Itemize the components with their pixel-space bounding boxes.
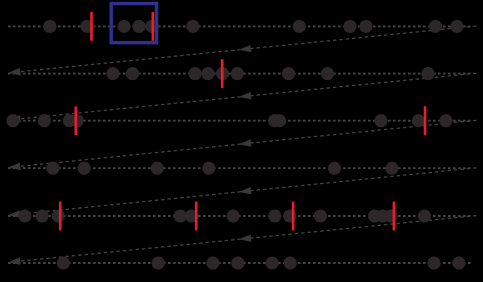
event circle row 1 #4	[132, 20, 145, 33]
mid arrowhead of return arrow 4	[239, 187, 252, 196]
row 3 dotted timeline	[8, 120, 473, 122]
event circle row 2 #1	[106, 67, 119, 80]
event circle row 2 #9	[421, 67, 434, 80]
event circle row 6 #4	[231, 256, 244, 269]
event circle row 2 #8	[321, 67, 334, 80]
event circle row 1 #1	[43, 20, 56, 33]
end arrowhead of return arrow 4	[8, 210, 21, 219]
row 6 dotted timeline	[8, 262, 473, 264]
red boundary tick row 5 #1	[59, 202, 62, 231]
event circle row 5 #1	[18, 209, 31, 222]
event circle row 1 #7	[293, 20, 306, 33]
mid arrowhead of return arrow 1	[239, 45, 252, 54]
event circle row 5 #3	[52, 209, 65, 222]
event circle row 2 #4	[201, 67, 214, 80]
event circle row 4 #1	[46, 162, 59, 175]
end arrowhead of return arrow 2	[8, 115, 21, 124]
event circle row 5 #4	[174, 209, 187, 222]
event circle row 6 #6	[284, 256, 297, 269]
red boundary tick row 3 #2	[424, 106, 427, 135]
mid arrowhead of return arrow 2	[239, 92, 252, 101]
event circle row 5 #9	[314, 209, 327, 222]
red boundary tick row 5 #4	[393, 202, 396, 231]
event circle row 1 #8	[343, 20, 356, 33]
event circle row 6 #5	[266, 256, 279, 269]
event circle row 3 #1	[6, 114, 19, 127]
red boundary tick row 3 #1	[75, 106, 78, 135]
event circle row 3 #3	[63, 114, 76, 127]
event circle row 6 #3	[206, 256, 219, 269]
event circle row 1 #6	[186, 20, 199, 33]
event circle row 6 #2	[152, 256, 165, 269]
event circle row 1 #10	[429, 20, 442, 33]
row 4 dotted timeline	[8, 167, 473, 169]
return arrow row 4 to row 5	[13, 168, 477, 215]
event circle row 4 #2	[78, 162, 91, 175]
event circle row 2 #3	[188, 67, 201, 80]
event circle row 5 #10	[368, 209, 381, 222]
event circle row 4 #4	[202, 162, 215, 175]
event circle row 2 #6	[231, 67, 244, 80]
event circle row 1 #3	[117, 20, 130, 33]
return arrow row 5 to row 6	[13, 216, 477, 262]
event circle row 3 #9	[439, 114, 452, 127]
red boundary tick row 2 #1	[221, 59, 224, 88]
event circle row 3 #4	[71, 114, 84, 127]
event circle row 1 #11	[450, 20, 463, 33]
event circle row 2 #2	[126, 67, 139, 80]
end arrowhead of return arrow 1	[8, 68, 21, 77]
event circle row 4 #5	[328, 162, 341, 175]
event circle row 5 #12	[384, 209, 397, 222]
event circle row 6 #7	[427, 256, 440, 269]
red boundary tick row 1 #2	[152, 12, 155, 41]
return arrow row 2 to row 3	[13, 73, 477, 119]
event circle row 3 #7	[374, 114, 387, 127]
row 1 dotted timeline	[8, 25, 473, 27]
event circle row 5 #2	[36, 209, 49, 222]
event circle row 3 #5	[268, 114, 281, 127]
event circle row 5 #11	[376, 209, 389, 222]
row 5 dotted timeline	[8, 215, 473, 217]
event circle row 2 #5	[216, 67, 229, 80]
event circle row 4 #6	[385, 162, 398, 175]
event circle row 3 #2	[38, 114, 51, 127]
red boundary tick row 5 #2	[195, 202, 198, 231]
event circle row 3 #6	[273, 114, 286, 127]
mid arrowhead of return arrow 3	[239, 139, 252, 148]
event circle row 6 #1	[57, 256, 70, 269]
event circle row 5 #13	[418, 209, 431, 222]
end arrowhead of return arrow 3	[8, 163, 21, 172]
blue highlight box on row 1	[111, 4, 156, 43]
mid arrowhead of return arrow 5	[239, 234, 252, 243]
event circle row 3 #8	[412, 114, 425, 127]
event circle row 5 #6	[227, 209, 240, 222]
red boundary tick row 1 #1	[90, 12, 93, 41]
red boundary tick row 5 #3	[292, 202, 295, 231]
event circle row 2 #7	[282, 67, 295, 80]
event circle row 6 #8	[452, 256, 465, 269]
event circle row 5 #5	[185, 209, 198, 222]
return arrow row 3 to row 4	[13, 120, 477, 167]
end arrowhead of return arrow 5	[8, 257, 21, 266]
event circle row 5 #8	[283, 209, 296, 222]
row 2 dotted timeline	[8, 73, 473, 75]
event circle row 5 #7	[268, 209, 281, 222]
event circle row 1 #9	[359, 20, 372, 33]
return arrow row 1 to row 2	[13, 26, 477, 72]
event circle row 1 #2	[80, 20, 93, 33]
event circle row 4 #3	[151, 162, 164, 175]
event circle row 1 #5	[145, 20, 158, 33]
